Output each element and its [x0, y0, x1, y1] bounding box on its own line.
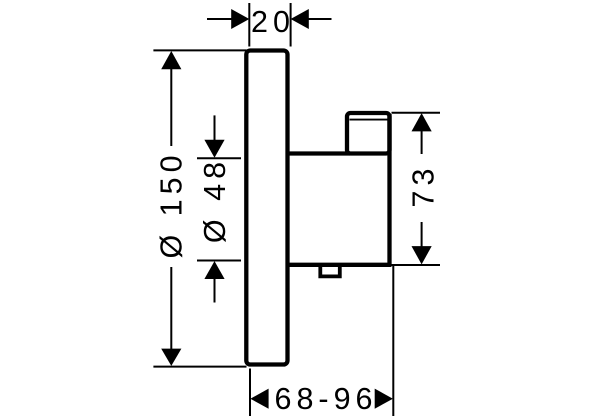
dim 150: up arrowhead: [161, 51, 181, 69]
dim 73: down arrowhead: [412, 246, 432, 264]
dim 20: left arrowhead: [231, 9, 249, 29]
dim 150: bottom extension line: [153, 366, 246, 368]
dim 150: dimension line lower segment: [170, 267, 172, 350]
dim 20: right tail: [309, 18, 332, 20]
svg-text:68-96: 68-96: [274, 382, 377, 416]
valve body right edge: [387, 114, 391, 267]
dim 68-96: left extension line: [249, 369, 251, 417]
dim 48: top tail: [214, 115, 216, 141]
dim 20: left extension line: [248, 3, 250, 47]
svg-text:20: 20: [251, 5, 295, 39]
dim 150: top extension line: [153, 49, 246, 51]
dim 48: top tick: [197, 157, 241, 159]
dim 73: top extension line: [392, 112, 441, 114]
svg-text:73: 73: [406, 164, 440, 208]
dim 20: right arrowhead: [291, 9, 309, 29]
valve body top edge: [286, 151, 350, 155]
dim 73: lower tail: [421, 222, 423, 248]
faceplate (side view rounded rectangle): [246, 51, 287, 365]
dim 73: up arrowhead: [412, 113, 432, 131]
bottom tab: [320, 265, 340, 276]
dim 48: up arrowhead: [204, 261, 224, 279]
dim 48: bottom tick: [197, 260, 241, 262]
dim 68-96: right arrowhead: [375, 389, 393, 409]
dim 48: bottom tail: [214, 278, 216, 303]
dim 68-96: right extension line: [392, 266, 394, 416]
dim 48: down arrowhead: [204, 140, 224, 158]
cartridge cap rectangle: [347, 113, 390, 154]
dim 73: bottom extension line: [390, 264, 440, 266]
svg-text:Ø 150: Ø 150: [155, 150, 189, 258]
cap inner line: [350, 119, 388, 121]
dim 73: upper tail: [421, 131, 423, 155]
dim 20: left tail: [207, 18, 232, 20]
svg-text:Ø 48: Ø 48: [198, 157, 232, 243]
dim 150: down arrowhead: [161, 349, 181, 366]
valve body bottom edge: [286, 263, 391, 267]
dim 150: dimension line upper segment: [170, 68, 172, 146]
dim 20: right extension line: [290, 3, 292, 47]
dim 68-96: left arrowhead: [250, 389, 268, 409]
